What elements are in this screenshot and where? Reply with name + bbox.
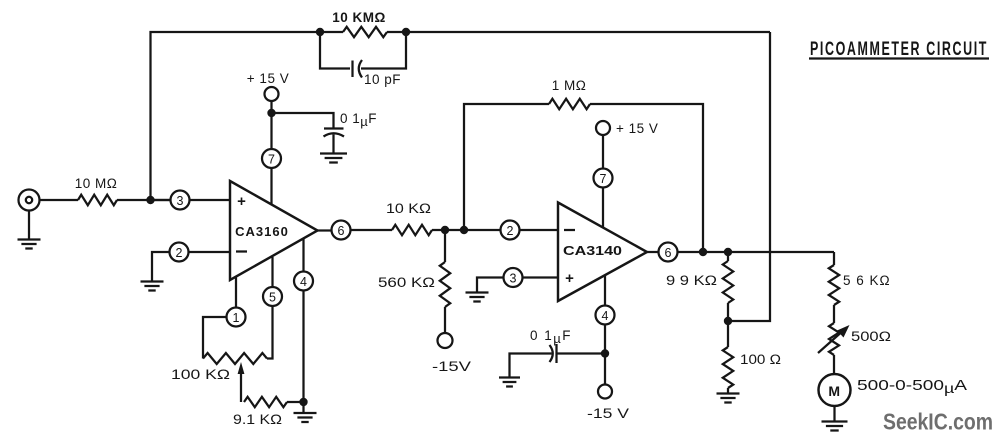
svg-text:-15V: -15V [432,358,472,374]
wire (pin4 lead) [302,239,304,271]
node D (1M return) [699,248,707,256]
wire (pin2 to U2 -in) [520,229,558,231]
svg-text:9 9 KΩ: 9 9 KΩ [666,273,717,288]
svg-text:-15 V: -15 V [587,405,630,421]
node (pin4/9.1K ground) [299,398,307,406]
wire (pin1 to pot) [203,317,226,359]
svg-text:+: + [237,193,246,210]
wire (560K to -15V) [444,307,446,333]
wire (pin4 to -15V) [604,325,606,385]
wire (node A to pin3) [151,199,171,201]
wire (560K upper lead) [444,230,446,262]
wire (jack to R 10M) [40,199,79,201]
svg-text:CA3140: CA3140 [563,243,622,258]
svg-text:560 KΩ: 560 KΩ [378,274,435,290]
ground (100Ω) [717,394,740,403]
resistor 9.1 KΩ [233,397,287,427]
resistor 10 KΩ [386,201,432,235]
wire (pin2 to U1 -in) [189,251,230,253]
terminal +15V (U1) [247,71,289,101]
node A (summing junction) [146,196,154,204]
rheostat 500 Ω [818,323,891,355]
pin 6 (U2) [659,243,678,262]
ground (9.1K / pin4) [294,402,317,422]
terminal +15V (U2) [596,121,658,136]
svg-text:7: 7 [600,172,607,186]
pin 5 (U1) [263,287,282,306]
wire (node A up and feedback top line) [151,32,771,200]
svg-text:6: 6 [665,246,672,260]
pin 3 (U2) [504,268,523,287]
node E (9.9K tap) [724,248,732,256]
wire (output to meter branch) [833,252,835,265]
svg-text:4: 4 [602,309,609,323]
svg-text:10 pF: 10 pF [364,72,401,87]
wire (500Ω to meter) [833,355,835,374]
svg-text:500-0-500µA: 500-0-500µA [857,377,967,396]
wire (9.1K to ground node) [287,401,304,403]
watermark SeekIC.com [883,409,993,435]
wire (+15V to pin7 U2) [602,135,604,168]
wire (pin3 left ground) [477,278,503,293]
node B (560K tap) [441,226,449,234]
wire (100Ω to ground) [727,388,729,393]
wire (1M feedback loop) [464,104,703,252]
wire (5.6K to 500Ω) [833,305,835,323]
pin 4 (U1) [294,272,313,291]
ground (input jack) [18,240,41,249]
svg-text:+ 15 V: + 15 V [616,121,658,136]
resistor 10 MΩ [75,176,118,205]
pin 4 (U2) [596,306,615,325]
svg-text:500Ω: 500Ω [851,329,891,344]
wire (pin6 to R 10K) [351,229,392,231]
svg-text:PICOAMMETER CIRCUIT: PICOAMMETER CIRCUIT [810,38,988,60]
svg-text:M: M [828,383,840,399]
wire (U2 out to pin6) [647,251,658,253]
svg-text:100 KΩ: 100 KΩ [171,366,230,382]
svg-text:+ 15 V: + 15 V [247,71,289,86]
ground (U2 cap) [499,378,520,387]
pin 1 (U1) [227,308,246,327]
pin 7 (U2) [594,169,613,188]
wire (10pF branch) [320,32,406,69]
wire (pin1 lead) [235,278,237,308]
svg-text:SeekIC.com: SeekIC.com [883,409,993,435]
svg-text:1: 1 [233,311,240,325]
wiper arrow (pot) [238,362,245,402]
resistor 5.6 KΩ [829,265,891,305]
wire (pin4 down) [302,291,304,402]
resistor 9.9 KΩ [666,252,733,303]
wire (R 10M to node A) [117,199,170,201]
ground (meter) [822,422,848,431]
svg-text:10 MΩ: 10 MΩ [75,176,118,191]
wire (jack to ground) [28,211,30,240]
ground (U1 bypass cap) [320,154,347,163]
wire (R 10K to pin2 U2) [432,229,500,231]
wire (9.9K to node F) [727,303,729,347]
pin 7 (U1) [262,149,281,168]
node (pin4/cap junction) [601,349,609,357]
wire (U2 pin4 lead) [604,276,606,306]
wire (output line) [678,251,834,253]
wire (pin3 to U2 +in) [523,276,558,278]
node (supply junction U1) [267,109,275,117]
pin 6 (U1) [332,221,351,240]
terminal -15V (U2) [587,385,630,422]
resistor 560 KΩ [378,262,450,307]
wire (+15V to pin7) [270,101,272,149]
resistor 10 KMΩ [332,10,387,37]
ground (pin 3 U2) [466,293,489,302]
wire (pin7 to U1) [270,169,272,206]
wire (pin2 to ground) [152,252,169,281]
svg-text:3: 3 [177,194,184,208]
wire (meter to ground) [833,406,835,421]
potentiometer 100 KΩ [171,353,267,382]
capacitor 0.1 µF (U1 bypass) [324,111,378,153]
input jack J1 [19,190,40,211]
svg-text:7: 7 [268,153,275,167]
title PICOAMMETER CIRCUIT [809,38,989,60]
svg-text:5: 5 [269,291,276,305]
svg-text:+: + [565,270,574,287]
svg-text:1 MΩ: 1 MΩ [552,78,587,93]
wire (pin7 to U2) [602,188,604,228]
wire (to bypass cap) [272,113,334,128]
pin 3 (U1) [171,191,190,210]
svg-text:9.1 KΩ: 9.1 KΩ [233,411,282,427]
capacitor 10 pF [353,60,402,87]
resistor 1 MΩ [549,78,590,109]
wire (pin5 lead) [271,257,273,287]
svg-text:4: 4 [300,275,307,289]
node (10KM left) [316,28,324,36]
node F (9.9K/100Ω junction) [724,317,732,325]
op-amp U2 CA3140 [558,203,647,302]
svg-text:10 KΩ: 10 KΩ [386,201,431,216]
svg-text:6: 6 [338,224,345,238]
wire (pin3 to U1 +in) [190,199,230,201]
wire (pot to pin5) [267,307,273,359]
pin 2 (U1) [170,243,189,262]
resistor 100 Ω [723,347,781,388]
terminal -15V (560K) [432,333,472,374]
wire (U1 out to pin6) [318,229,332,231]
svg-text:2: 2 [507,224,514,238]
wire (10KM feedback return) [728,32,770,321]
node C (1M feedback tap) [460,226,468,234]
pin 2 (U2) [501,221,520,240]
svg-text:5 6 KΩ: 5 6 KΩ [843,273,891,288]
meter M [819,374,968,406]
svg-text:100 Ω: 100 Ω [740,352,781,367]
svg-text:2: 2 [176,246,183,260]
svg-text:10 KMΩ: 10 KMΩ [332,10,386,25]
svg-text:3: 3 [510,272,517,286]
op-amp U1 CA3160 [230,181,318,280]
ground (pin 2) [141,282,164,291]
capacitor 0.1 µF (U2) [510,328,606,377]
node (10KM right) [402,28,410,36]
svg-text:CA3160: CA3160 [235,224,289,239]
